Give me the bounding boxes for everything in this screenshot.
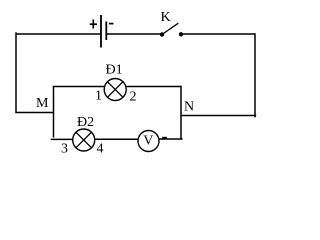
wire N stub: node N to right vertical — [181, 115, 256, 117]
switch K right contact dot — [179, 32, 183, 36]
wire inner box right edge — [180, 86, 182, 139]
voltmeter V circle — [138, 131, 159, 152]
lamp D1 cross — [107, 82, 123, 98]
switch K left contact dot — [160, 32, 164, 36]
svg-text:Đ2: Đ2 — [77, 115, 94, 130]
battery short plate (-) — [105, 22, 107, 41]
svg-text:M: M — [36, 96, 49, 111]
battery long plate (+) — [100, 15, 102, 48]
wire right vertical — [254, 33, 256, 117]
svg-text:Đ1: Đ1 — [106, 63, 123, 78]
lamp D1 circle — [104, 79, 126, 101]
svg-text:3: 3 — [61, 142, 68, 157]
svg-text:1: 1 — [95, 89, 102, 104]
svg-text:N: N — [184, 100, 194, 115]
lamp D2 cross — [76, 132, 92, 148]
wire M stub: left vertical to node M — [15, 112, 53, 114]
svg-text:4: 4 — [97, 142, 104, 157]
wire inner box left edge — [53, 86, 55, 138]
battery - label — [109, 23, 114, 25]
wire left vertical — [15, 32, 17, 112]
svg-text:V: V — [143, 134, 153, 149]
svg-text:2: 2 — [130, 90, 137, 105]
voltmeter minus terminal mark — [162, 137, 167, 139]
switch K lever (open) — [162, 23, 178, 34]
wire switch to top-right corner — [181, 33, 255, 35]
wire lamp D2 to voltmeter — [95, 138, 139, 140]
svg-text:K: K — [161, 10, 171, 25]
wire bottom branch left corner — [51, 138, 73, 140]
wire top-left: battery to left corner — [16, 33, 101, 35]
wire top branch right: lamp D1 to N side — [126, 86, 182, 88]
battery + label — [90, 20, 97, 29]
lamp D2 circle — [73, 129, 95, 151]
wire top branch left: M side to lamp D1 — [53, 86, 105, 88]
wire battery to switch — [106, 33, 161, 35]
wire voltmeter to N side — [159, 138, 183, 140]
